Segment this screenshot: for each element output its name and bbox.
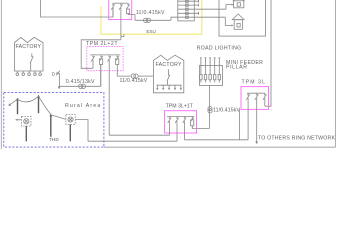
U2 bus: [90, 54, 120, 56]
switch S4 U2 way1: [91, 55, 94, 68]
fuse-switch F4 U3 way4: [191, 117, 194, 129]
svg-text:FACTORY: FACTORY: [156, 62, 183, 68]
wire way2 jog to ESU edge: [121, 34, 124, 36]
arrow into T5: [15, 119, 22, 121]
transformer T4 11/0.415kV (road lighting): [208, 107, 212, 114]
switch S9 U3 way3: [183, 117, 186, 140]
pole transformer T6 (dashed box): [66, 115, 75, 125]
border frame left: [0, 0, 2, 149]
U4 bus: [247, 92, 265, 94]
arrow to others ring network: [255, 141, 258, 144]
svg-text:0.415/13kV: 0.415/13kV: [66, 79, 95, 85]
road lighting feeder drop: [209, 86, 211, 129]
switch S7 U3 way1: [168, 117, 171, 136]
pole P3: [50, 114, 53, 137]
fuse-switch F3 U2 way4: [116, 55, 132, 76]
svg-text:D: D: [52, 71, 56, 77]
wire bottom bus to others: [104, 146, 336, 148]
ESU yellow boundary: [101, 0, 202, 34]
switch S8 U3 way2: [175, 117, 178, 142]
span P3 to transformer T6: [51, 115, 66, 120]
pillar way5 to house H2: [178, 16, 234, 26]
pillar way4: [178, 12, 199, 15]
switch S11 U4 way2: [255, 93, 258, 142]
transformer T1 11/0.415kV: [135, 17, 178, 22]
factory building FACTORY-1: [14, 37, 43, 71]
wire T6 to ring (rural outgoing): [75, 120, 88, 142]
feeder pillar box (ESU LV board): [178, 0, 195, 21]
T5 LV drop: [25, 126, 27, 141]
svg-text:ROAD LIGHTING: ROAD LIGHTING: [197, 45, 242, 51]
wire road lighting to TPM 3L+1T way4: [192, 126, 209, 129]
border frame right: [335, 0, 337, 147]
svg-text:11/0.415kV: 11/0.415kV: [136, 10, 165, 16]
switch S1 way1: [111, 3, 114, 17]
wire D-switch to transformer T3: [58, 73, 60, 86]
lamp circuit L1: [200, 58, 202, 83]
overhead span P1-P2: [18, 96, 39, 102]
lamp circuit L3: [209, 58, 211, 83]
road lighting pillar box: [200, 66, 223, 86]
pillar way2: [178, 4, 199, 7]
transformer T3 0.415/13kV: [58, 64, 100, 88]
svg-text:THD: THD: [49, 137, 59, 143]
rural area boundary (blue dashed): [4, 92, 104, 147]
house H1: [233, 0, 245, 8]
RMU U4 box TPM 3L (magenta): [241, 87, 269, 110]
pole P2: [37, 95, 40, 114]
switch S2 way2: [119, 3, 122, 39]
lamp circuit L5: [218, 58, 220, 83]
breaker D with switch: [52, 71, 60, 78]
svg-text:11/0.415kV: 11/0.415kV: [120, 78, 148, 84]
T6 LV drop: [69, 124, 71, 141]
svg-text:ESU: ESU: [146, 29, 155, 34]
wire ring incoming at U4 left: [239, 109, 241, 139]
RMU bus: [113, 2, 129, 4]
pole transformer T5 (dashed box): [22, 116, 31, 126]
svg-text:TPM 3L: TPM 3L: [242, 79, 267, 85]
switch S12 U4 way3: [263, 93, 266, 106]
svg-text:Rural Area: Rural Area: [65, 103, 101, 109]
switch S10 U4 way1: [246, 93, 249, 139]
wire west feeder into RMU way1: [41, 0, 113, 17]
incoming OH line arrow: [8, 99, 17, 106]
svg-text:11/0.415kV: 11/0.415kV: [213, 107, 240, 113]
svg-text:TO OTHERS RING NETWORK: TO OTHERS RING NETWORK: [258, 136, 335, 142]
pillar way3 to house H1: [178, 4, 234, 11]
U3 bus: [167, 115, 194, 117]
transformer T2 11/0.415kV: [131, 74, 153, 78]
svg-text:TPM 3L+1T: TPM 3L+1T: [166, 103, 194, 109]
pillar way1: [178, 0, 199, 3]
RMU U3 box TPM 3L+1T (magenta): [165, 111, 197, 133]
lamp circuit L4: [214, 58, 216, 83]
house H2: [232, 14, 245, 29]
switch S5 U2 way3: [108, 55, 111, 135]
switch S3 inside factory1: [30, 54, 33, 72]
arrowhead at T3 line start: [58, 86, 61, 89]
pole P1: [16, 98, 19, 115]
wire ring U3 way3 to U4 way1: [185, 139, 249, 141]
fuse-switch F2 U2 way2: [99, 55, 102, 86]
overhead span P2-P3: [39, 96, 51, 114]
switch S6 inside factory2: [167, 69, 170, 85]
RMU U2 box TPM 2L+2T (dashed magenta): [87, 46, 123, 70]
wire ring U2 way3 to U3 way1: [109, 134, 169, 136]
svg-text:FACTORY: FACTORY: [16, 44, 42, 50]
fuse-switch F1 way3: [126, 3, 135, 20]
factory building FACTORY-2: [153, 55, 183, 93]
wire ESU to TPM 2L+2T (11kV feed): [81, 40, 121, 69]
factory1 outgoing ways (5 pins): [16, 71, 41, 75]
consumers box: [219, 0, 266, 36]
RMU U1 box (magenta, ESU 11kV switchboard): [109, 0, 132, 20]
svg-text:PILLAR: PILLAR: [226, 64, 248, 70]
factory2 LV bus and load arrows: [156, 85, 182, 90]
wire rural feed to U3 way2: [88, 140, 177, 142]
riser east feeder to TPM 3L: [265, 0, 271, 106]
lamp circuit L2: [204, 58, 206, 83]
